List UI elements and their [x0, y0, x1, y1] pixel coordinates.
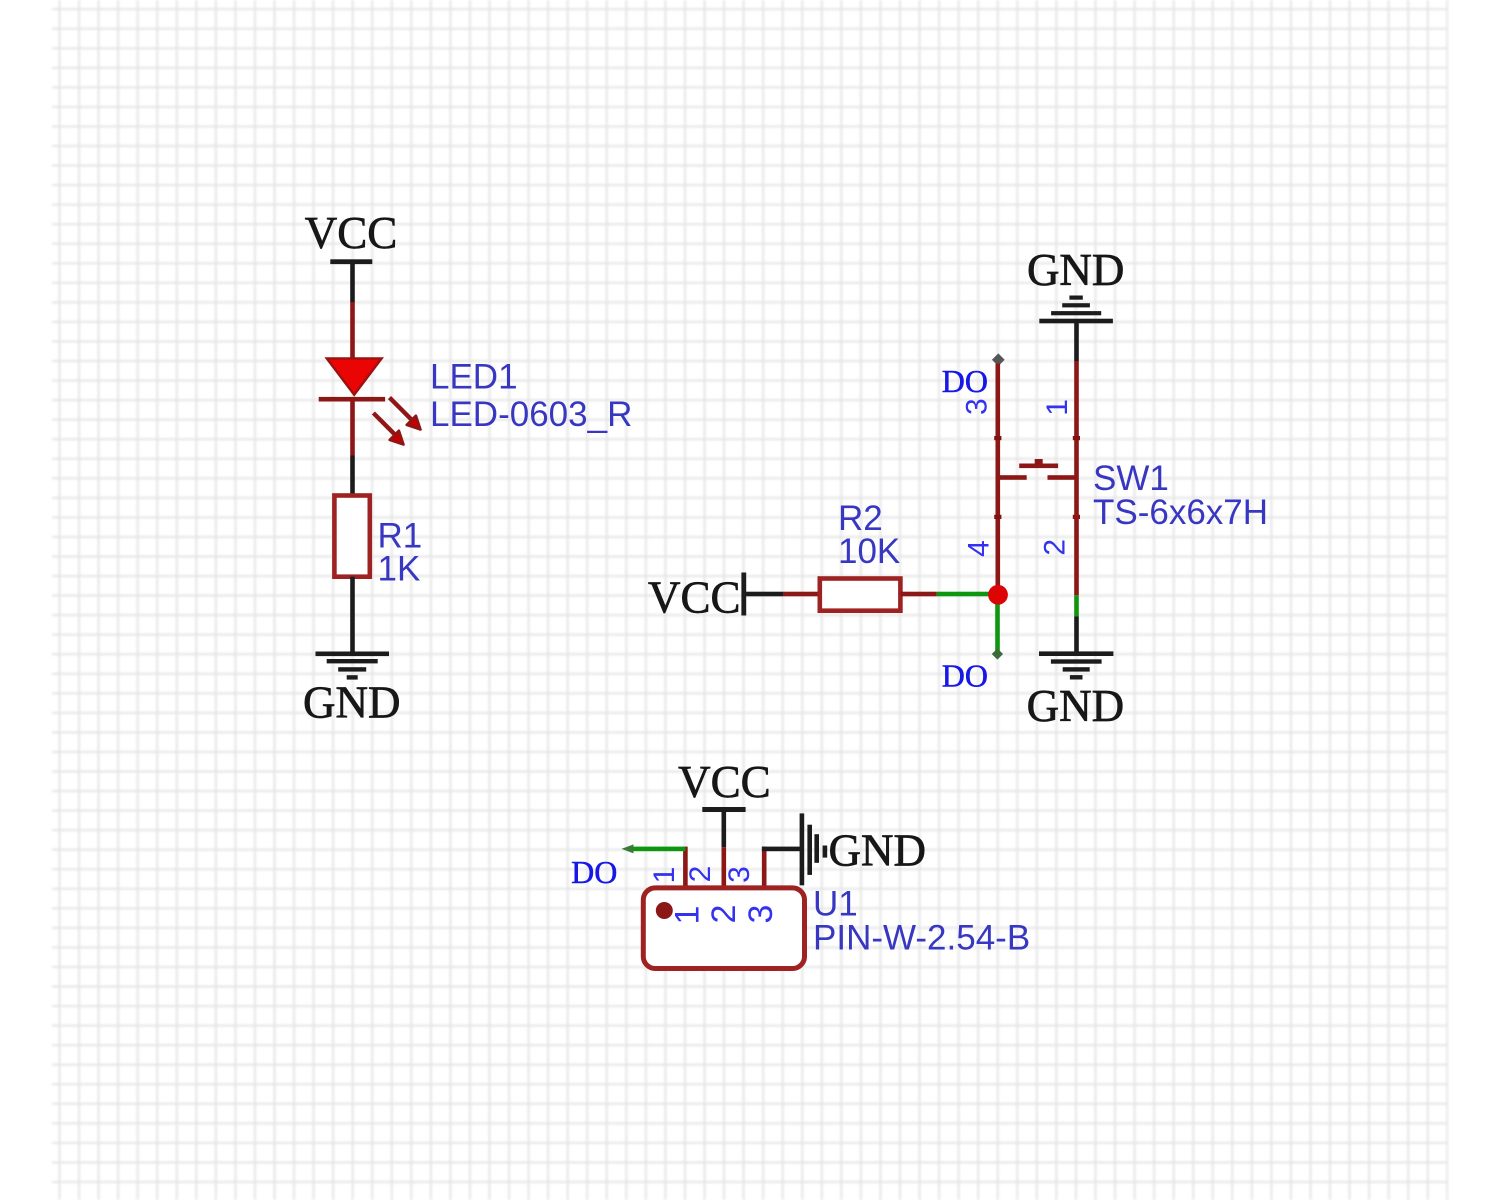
pin SW1 pin 2 lower segment [1074, 477, 1079, 595]
pin U1 pin 1 riser [683, 847, 688, 889]
ground GND (U1, rotated) [800, 813, 926, 885]
svg-text:VCC: VCC [305, 208, 398, 258]
LED LED1 cathode bar [319, 397, 385, 402]
svg-text:LED1: LED1 [430, 358, 518, 397]
wire U1 pin 3 to GND [762, 847, 802, 852]
svg-text:1K: 1K [378, 550, 421, 589]
svg-text:3: 3 [723, 866, 756, 883]
svg-text:4: 4 [963, 540, 996, 557]
pin LED1 cathode [350, 402, 355, 456]
wire R2 to junction (green) [937, 592, 998, 597]
svg-text:GND: GND [303, 678, 401, 728]
pin SW1 pin 1 [1074, 361, 1079, 477]
svg-text:LED-0603_R: LED-0603_R [430, 395, 632, 434]
svg-text:VCC: VCC [648, 573, 741, 623]
svg-text:DO: DO [942, 658, 988, 694]
switch SW1 wiper bar [1019, 464, 1058, 469]
ground GND (left chain) [303, 652, 401, 728]
svg-text:10K: 10K [838, 532, 900, 571]
svg-text:2: 2 [705, 905, 743, 924]
pin LED1 anode [350, 302, 355, 360]
pin U1 pin 2 riser [722, 847, 727, 888]
power port VCC (R2 row) [648, 573, 746, 623]
svg-text:VCC: VCC [678, 757, 771, 807]
svg-text:GND: GND [1027, 681, 1125, 731]
pin R2 right [900, 592, 936, 597]
wire to bottom GND (black) [1074, 617, 1079, 652]
svg-text:PIN-W-2.54-B: PIN-W-2.54-B [813, 919, 1030, 958]
wire DO net down left side of SW1 [996, 364, 1001, 595]
wire VCC to LED1 anode [350, 261, 355, 302]
wire DO to U1 pin 1 (green with arrow) [622, 844, 686, 853]
ground GND (bottom right) [1027, 651, 1125, 731]
connector U1 body [643, 888, 804, 969]
svg-text:1: 1 [648, 867, 681, 884]
LED LED1 triangle [327, 358, 382, 394]
svg-text:TS-6x6x7H: TS-6x6x7H [1093, 493, 1268, 532]
power port GND (top right) [1027, 245, 1125, 323]
junction dot DO node [988, 585, 1008, 605]
svg-text:3: 3 [742, 905, 780, 924]
wire SW1 pin 2 to GND (green overlap) [1074, 595, 1079, 616]
power port VCC (U1) [678, 757, 771, 812]
svg-text:2: 2 [1039, 539, 1072, 556]
LED LED1 emission arrow 2 [373, 413, 403, 445]
svg-text:1: 1 [669, 906, 707, 925]
wire VCC to R2 [746, 592, 783, 597]
wire LED1 to R1 [350, 456, 355, 498]
power port VCC (left chain) [305, 208, 398, 264]
wire R1 to GND [350, 577, 355, 653]
pin R2 left [783, 592, 819, 597]
wire junction down to DO label (green) [995, 605, 1000, 653]
pin end tick SW1 pin 4 [994, 515, 1001, 519]
LED LED1 emission arrow 1 [390, 398, 421, 430]
resistor R1 [334, 496, 369, 577]
pin U1 pin 3 riser [762, 847, 767, 889]
pin end tick SW1 pin 2 [1073, 515, 1080, 519]
svg-text:3: 3 [961, 398, 994, 415]
pin 1 polarity dot (U1) [656, 902, 673, 919]
resistor R2 [820, 579, 901, 611]
svg-text:DO: DO [942, 363, 988, 399]
switch SW1 plunger stem [1035, 459, 1043, 464]
svg-text:GND: GND [1027, 245, 1125, 295]
svg-text:1: 1 [1041, 399, 1074, 416]
svg-text:GND: GND [829, 826, 927, 876]
node DO wire end marker (top of left line) [992, 353, 1005, 366]
svg-text:2: 2 [684, 866, 717, 883]
svg-text:DO: DO [571, 854, 617, 890]
pin end tick SW1 pin 3 [994, 436, 1001, 440]
wire VCC to U1 pin 2 [722, 812, 727, 847]
pin end tick SW1 pin 1 [1073, 436, 1080, 440]
wire GND to SW1 pin 1 [1074, 323, 1079, 361]
switch SW1 left contact [996, 475, 1027, 480]
node DO wire end marker (below junction) [992, 648, 1003, 659]
switch SW1 right contact [1048, 475, 1079, 480]
